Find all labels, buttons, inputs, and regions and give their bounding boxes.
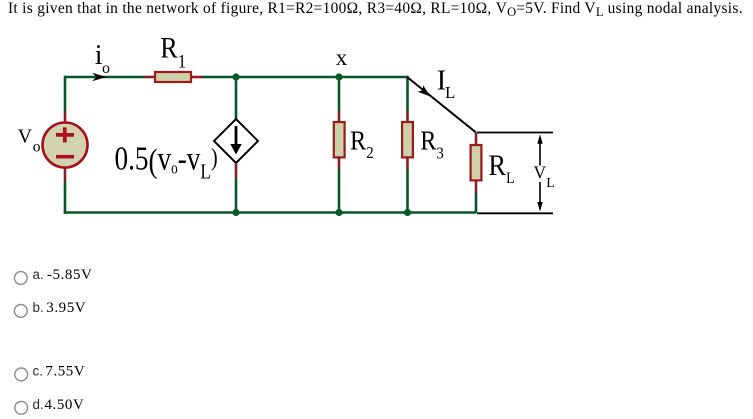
wire top rail from Vo to node after R1 lead	[65, 76, 144, 79]
resistor R1	[144, 72, 203, 82]
svg-text:b.: b.	[33, 300, 44, 315]
node junction dot bottom of R2	[335, 209, 342, 216]
wire from top rail down to dependent source	[235, 77, 238, 119]
label 0.5(vo-vL) value of dependent source	[115, 139, 218, 183]
svg-text:3.95V: 3.95V	[46, 300, 86, 316]
svg-text:V: V	[18, 126, 33, 148]
label R2	[350, 125, 374, 163]
dependent current source 0.5(vo-vL)	[214, 119, 258, 178]
label VL	[534, 163, 555, 191]
svg-text:o: o	[102, 60, 110, 77]
svg-text:R2: R2	[350, 125, 374, 163]
svg-text:a.: a.	[33, 267, 44, 282]
svg-text:4.50V: 4.50V	[45, 397, 85, 413]
wire bottom rail	[64, 211, 476, 214]
svg-text:o: o	[33, 138, 41, 155]
voltage source Vo	[43, 111, 88, 181]
wire from RL to bottom rail	[475, 193, 478, 214]
label IL	[437, 65, 456, 102]
svg-text:7.55V: 7.55V	[45, 364, 85, 380]
label node X	[336, 45, 348, 70]
svg-text:-5.85V: -5.85V	[47, 267, 92, 283]
wire diagonal with IL current arrow to RL	[407, 77, 477, 133]
resistor R3 branch wires and body	[402, 76, 413, 213]
resistor RL	[471, 133, 482, 193]
wire from dependent source to bottom rail	[235, 178, 238, 213]
svg-text:RL: RL	[488, 150, 514, 187]
label io	[95, 40, 110, 77]
node X junction dot	[335, 73, 342, 80]
label Vo	[18, 126, 41, 156]
svg-text:d.: d.	[33, 397, 44, 412]
node junction dot top of dependent source branch	[232, 73, 239, 80]
VL measurement arrow	[537, 134, 542, 211]
svg-text:x: x	[336, 45, 348, 70]
svg-text:V: V	[534, 163, 547, 183]
wire top rail from R1 to corner above R3	[203, 76, 407, 79]
current arrow io	[92, 73, 107, 81]
svg-text:L: L	[445, 83, 455, 102]
label R1	[160, 32, 186, 71]
svg-text:c.: c.	[33, 364, 43, 379]
svg-text:R3: R3	[420, 125, 444, 163]
wire left vertical from top rail to Vo	[64, 76, 67, 111]
label RL	[488, 150, 514, 187]
label R3	[420, 125, 444, 163]
svg-text:L: L	[546, 176, 555, 191]
svg-text:R1: R1	[160, 32, 186, 71]
resistor R2 branch wires and body	[334, 77, 345, 213]
node junction dot bottom of R3	[404, 209, 411, 216]
wire left vertical from Vo to bottom rail	[64, 181, 67, 214]
measurement line bottom of VL	[477, 212, 553, 214]
svg-text:0.5(vo-vL): 0.5(vo-vL)	[115, 139, 218, 183]
measurement line top of VL	[477, 132, 553, 134]
node junction dot bottom of dependent source branch	[232, 209, 239, 216]
